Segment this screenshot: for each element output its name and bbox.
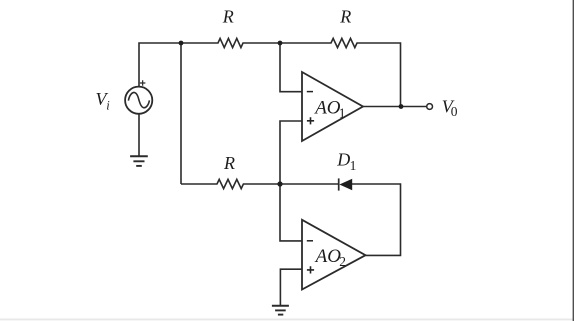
svg-text:AO: AO bbox=[313, 98, 341, 119]
svg-text:AO: AO bbox=[314, 246, 342, 267]
svg-text:i: i bbox=[106, 98, 110, 112]
svg-text:1: 1 bbox=[339, 105, 346, 120]
svg-text:R: R bbox=[223, 153, 235, 173]
svg-text:2: 2 bbox=[339, 254, 346, 269]
svg-text:0: 0 bbox=[451, 104, 458, 119]
svg-text:R: R bbox=[222, 7, 234, 27]
svg-text:D: D bbox=[336, 150, 350, 170]
svg-text:1: 1 bbox=[350, 158, 357, 173]
svg-text:R: R bbox=[339, 7, 351, 27]
